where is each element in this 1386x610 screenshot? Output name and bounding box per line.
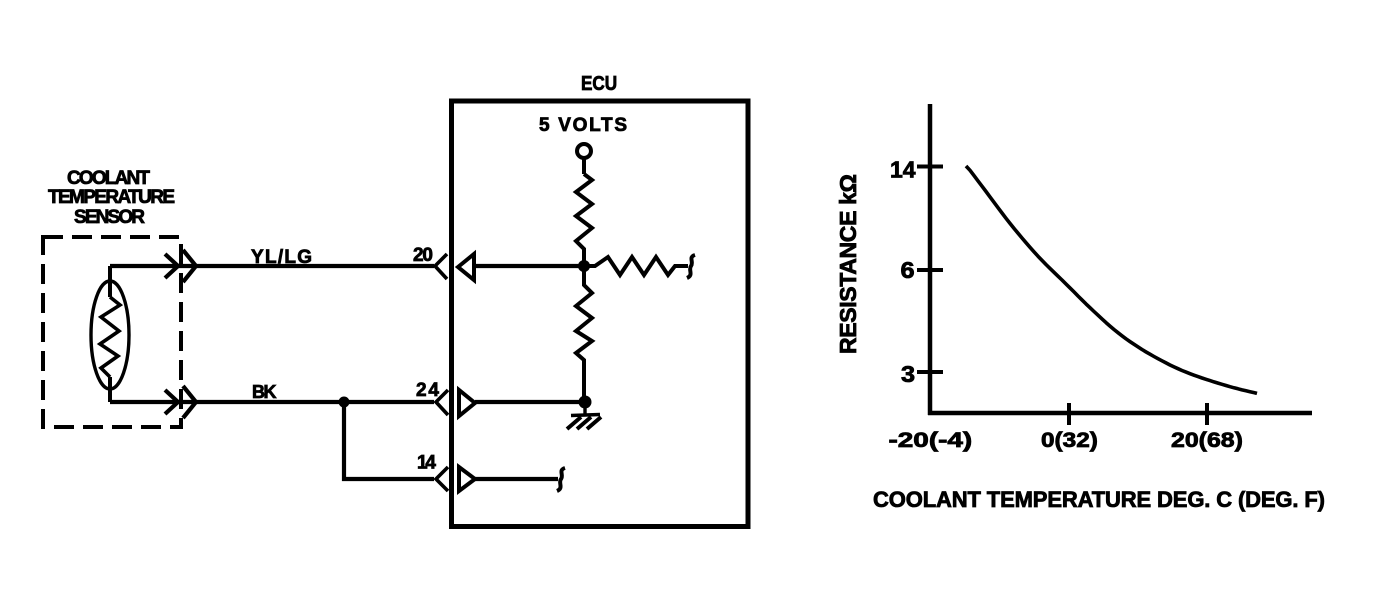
graph Y axis	[928, 104, 933, 415]
svg-text:YL/LG: YL/LG	[251, 247, 312, 268]
svg-text:20: 20	[413, 245, 433, 266]
resistor R3 (horizontal)	[584, 257, 688, 275]
connector chevron > (sensor side, BK wire, outer)	[183, 386, 196, 418]
svg-text:ECU: ECU	[581, 72, 617, 95]
resistor R1 (pull-up, vertical)	[576, 174, 592, 266]
ground symbol	[567, 407, 601, 429]
svg-text:20(68): 20(68)	[1171, 428, 1243, 452]
wire pin20 to node A	[475, 264, 584, 268]
pin 24 buffer triangle (points right)	[459, 390, 475, 416]
terminator squiggle at pin 14 wire end	[557, 468, 565, 491]
coolant temperature sensor dashed box	[43, 237, 181, 427]
wire pin24 to node B	[475, 400, 585, 404]
resistor R2 (lower vertical)	[576, 266, 592, 402]
svg-text:6: 6	[901, 258, 915, 284]
svg-text:3: 3	[901, 362, 915, 388]
connector chevron > (sensor side, YL/LG wire, outer)	[183, 250, 196, 282]
svg-text:-20(-4): -20(-4)	[889, 429, 973, 452]
svg-text:5 VOLTS: 5 VOLTS	[539, 115, 627, 136]
resistance vs temperature curve	[966, 166, 1257, 393]
thermistor zigzag element	[100, 297, 120, 377]
graph X axis	[928, 411, 1312, 416]
svg-text:RESISTANCE kΩ: RESISTANCE kΩ	[835, 174, 861, 354]
X tick 0(32)	[1067, 403, 1071, 425]
pin 14 buffer triangle (points right)	[459, 467, 475, 491]
Y tick 14	[917, 165, 943, 169]
node B junction dot (pin24 / ground)	[579, 396, 592, 409]
terminator squiggle at R3 right end	[687, 255, 695, 278]
wire from BK junction down to pin 14	[344, 402, 434, 479]
thermistor ellipse	[91, 281, 129, 389]
Y tick 3	[917, 370, 943, 374]
svg-text:BK: BK	[252, 382, 277, 402]
pin 14 chevron at ECU wall	[436, 467, 448, 491]
wire from pin 14 triangle	[475, 477, 558, 481]
connector chevron > (sensor side, YL/LG wire, inner)	[165, 254, 178, 278]
pin 20 buffer triangle (points left)	[458, 254, 474, 280]
connector chevron > (sensor side, BK wire, inner)	[165, 390, 178, 414]
pin 20 chevron at ECU wall	[435, 254, 447, 279]
pin 24 chevron at ECU wall	[436, 390, 448, 415]
wire YL/LG from sensor to ECU pin 20	[110, 264, 434, 268]
node A junction dot (pin20 / divider)	[578, 260, 590, 272]
ECU box	[452, 101, 749, 527]
svg-text:14: 14	[890, 157, 916, 183]
wire BK from sensor to ECU pin 24	[110, 400, 434, 404]
5V terminal circle	[577, 144, 591, 158]
svg-text:COOLANT: COOLANT	[67, 168, 150, 189]
label: COOLANT TEMPERATURE SENSOR title	[48, 168, 175, 228]
wire: sensor top lead stub	[108, 266, 112, 297]
svg-text:24: 24	[416, 380, 439, 401]
wire from 5V terminal to resistor R1	[582, 158, 586, 174]
wire: sensor bottom lead stub	[108, 377, 112, 402]
svg-text:COOLANT TEMPERATURE DEG. C (DE: COOLANT TEMPERATURE DEG. C (DEG. F)	[873, 487, 1325, 512]
svg-text:14: 14	[417, 453, 436, 474]
svg-text:TEMPERATURE: TEMPERATURE	[48, 187, 175, 208]
X tick 20(68)	[1205, 403, 1209, 425]
junction node on BK wire	[339, 397, 350, 408]
svg-text:0(32): 0(32)	[1041, 428, 1098, 452]
svg-text:SENSOR: SENSOR	[74, 207, 145, 228]
Y tick 6	[917, 268, 943, 272]
